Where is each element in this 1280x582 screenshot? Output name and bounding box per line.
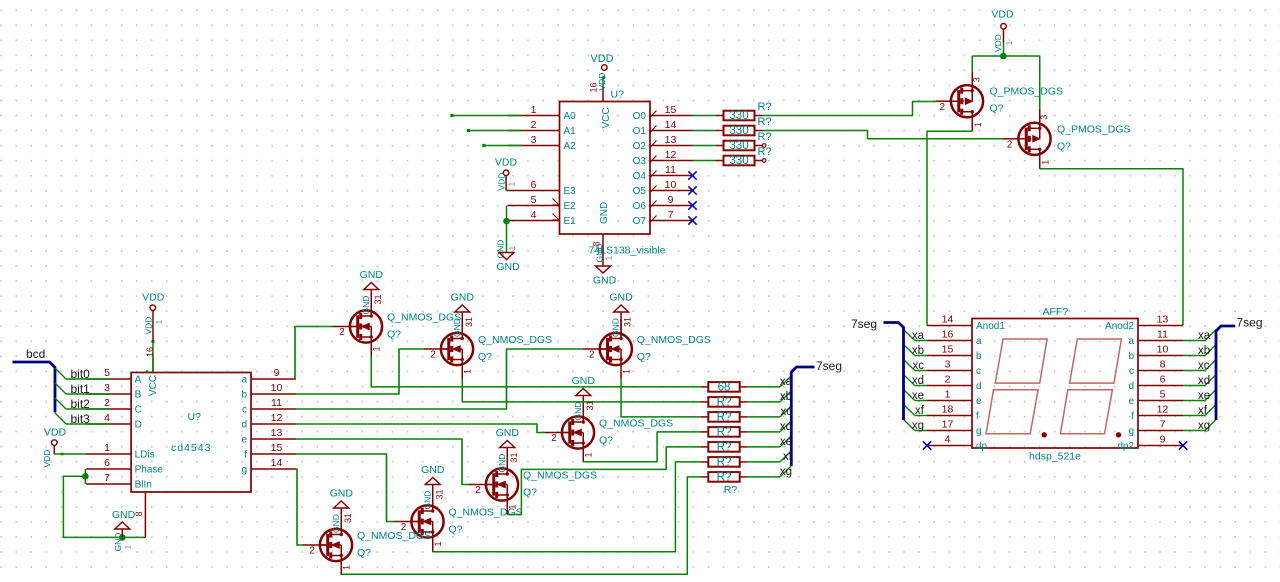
svg-text:R?: R? bbox=[717, 412, 732, 424]
svg-text:VDD: VDD bbox=[144, 317, 154, 335]
svg-text:g: g bbox=[976, 426, 982, 437]
svg-text:A2: A2 bbox=[564, 141, 577, 152]
svg-text:E3: E3 bbox=[564, 186, 577, 197]
svg-text:Q?: Q? bbox=[449, 524, 463, 536]
svg-text:5: 5 bbox=[104, 367, 110, 379]
svg-text:O0: O0 bbox=[633, 111, 647, 122]
svg-text:1: 1 bbox=[463, 369, 473, 374]
svg-text:c: c bbox=[1129, 366, 1134, 377]
svg-text:VCC: VCC bbox=[148, 375, 159, 396]
svg-text:R?: R? bbox=[724, 484, 738, 496]
svg-text:bit3: bit3 bbox=[71, 412, 91, 426]
svg-text:d: d bbox=[1128, 381, 1134, 392]
svg-text:xb: xb bbox=[1198, 345, 1210, 357]
svg-text:xg: xg bbox=[912, 420, 924, 432]
svg-text:10: 10 bbox=[665, 179, 677, 191]
svg-text:Q?: Q? bbox=[387, 329, 401, 341]
svg-text:R?: R? bbox=[758, 146, 772, 158]
svg-text:O2: O2 bbox=[633, 141, 647, 152]
svg-text:2: 2 bbox=[339, 327, 345, 338]
svg-text:GND: GND bbox=[451, 292, 475, 304]
svg-text:11: 11 bbox=[665, 164, 676, 176]
svg-text:O4: O4 bbox=[633, 171, 647, 182]
svg-text:GND: GND bbox=[422, 491, 432, 510]
svg-text:bit0: bit0 bbox=[71, 367, 91, 381]
svg-text:a: a bbox=[976, 336, 982, 347]
svg-text:g: g bbox=[241, 465, 247, 476]
svg-text:D: D bbox=[135, 420, 142, 431]
svg-text:9: 9 bbox=[668, 194, 674, 206]
svg-text:Q?: Q? bbox=[599, 435, 613, 447]
svg-text:VCC: VCC bbox=[601, 107, 612, 128]
svg-text:Anod2: Anod2 bbox=[1105, 321, 1134, 332]
svg-text:R?: R? bbox=[758, 131, 772, 143]
svg-text:cd4543: cd4543 bbox=[171, 442, 211, 454]
svg-text:GND: GND bbox=[599, 202, 610, 224]
svg-text:A: A bbox=[135, 375, 142, 386]
svg-text:12: 12 bbox=[1157, 404, 1169, 416]
svg-text:xb: xb bbox=[912, 345, 924, 357]
svg-text:3: 3 bbox=[531, 134, 537, 146]
svg-text:7: 7 bbox=[104, 472, 110, 484]
svg-text:d: d bbox=[241, 420, 247, 431]
svg-text:Q_NMOS_DGS: Q_NMOS_DGS bbox=[387, 312, 461, 324]
svg-text:E2: E2 bbox=[564, 201, 577, 212]
svg-text:7seg: 7seg bbox=[816, 359, 842, 373]
svg-text:9: 9 bbox=[274, 367, 280, 379]
svg-text:1: 1 bbox=[945, 389, 951, 401]
svg-text:10: 10 bbox=[1157, 344, 1169, 356]
svg-text:GND: GND bbox=[330, 488, 354, 500]
svg-text:GND: GND bbox=[573, 402, 583, 421]
svg-text:Anod1: Anod1 bbox=[976, 321, 1005, 332]
svg-text:2: 2 bbox=[551, 433, 557, 444]
svg-text:Q?: Q? bbox=[478, 351, 492, 363]
svg-text:13: 13 bbox=[271, 427, 283, 439]
svg-text:1: 1 bbox=[507, 182, 517, 187]
svg-text:1: 1 bbox=[123, 545, 133, 550]
svg-text:Q?: Q? bbox=[990, 103, 1004, 115]
svg-text:dp2: dp2 bbox=[1117, 441, 1134, 452]
svg-text:LDis: LDis bbox=[135, 450, 155, 461]
svg-text:3: 3 bbox=[945, 359, 951, 371]
svg-text:Q_NMOS_DGS: Q_NMOS_DGS bbox=[449, 507, 523, 519]
svg-text:5: 5 bbox=[531, 194, 537, 206]
svg-text:1: 1 bbox=[621, 369, 631, 374]
svg-text:1: 1 bbox=[1004, 41, 1014, 46]
svg-text:GND: GND bbox=[421, 464, 445, 476]
svg-text:e: e bbox=[1128, 396, 1134, 407]
svg-text:31: 31 bbox=[509, 452, 519, 462]
svg-text:R?: R? bbox=[717, 457, 732, 469]
svg-text:g: g bbox=[1128, 426, 1134, 437]
svg-text:Q_NMOS_DGS: Q_NMOS_DGS bbox=[478, 334, 552, 346]
svg-text:b: b bbox=[1128, 351, 1134, 362]
svg-text:17: 17 bbox=[942, 419, 954, 431]
svg-text:2: 2 bbox=[940, 102, 946, 113]
svg-text:GND: GND bbox=[497, 454, 507, 473]
svg-text:330: 330 bbox=[729, 125, 748, 137]
svg-text:GND: GND bbox=[609, 292, 633, 304]
svg-text:Q_NMOS_DGS: Q_NMOS_DGS bbox=[637, 334, 711, 346]
svg-text:Q_PMOS_DGS: Q_PMOS_DGS bbox=[990, 86, 1064, 98]
svg-text:12: 12 bbox=[665, 149, 677, 161]
svg-text:15: 15 bbox=[665, 104, 677, 116]
svg-text:3: 3 bbox=[1039, 115, 1049, 120]
svg-text:U?: U? bbox=[611, 89, 625, 101]
svg-text:12: 12 bbox=[271, 412, 283, 424]
svg-text:R?: R? bbox=[717, 442, 732, 454]
svg-text:2: 2 bbox=[945, 374, 951, 386]
svg-text:VDD: VDD bbox=[497, 173, 507, 191]
svg-text:16: 16 bbox=[589, 82, 599, 92]
svg-text:31: 31 bbox=[434, 489, 444, 499]
svg-text:18: 18 bbox=[942, 404, 954, 416]
svg-text:xc: xc bbox=[913, 360, 925, 372]
svg-text:c: c bbox=[976, 366, 981, 377]
svg-text:R?: R? bbox=[758, 101, 772, 113]
svg-text:16: 16 bbox=[942, 329, 954, 341]
svg-text:11: 11 bbox=[271, 397, 282, 409]
svg-text:e: e bbox=[976, 396, 982, 407]
svg-text:GND: GND bbox=[360, 269, 384, 281]
svg-text:1: 1 bbox=[433, 541, 443, 546]
svg-text:R?: R? bbox=[717, 472, 732, 484]
svg-text:dp: dp bbox=[976, 441, 988, 452]
svg-text:a: a bbox=[1128, 336, 1134, 347]
svg-text:7seg: 7seg bbox=[1237, 316, 1263, 330]
svg-text:1: 1 bbox=[104, 442, 110, 454]
svg-text:O3: O3 bbox=[633, 156, 647, 167]
svg-text:bcd: bcd bbox=[26, 347, 45, 361]
svg-text:1: 1 bbox=[342, 565, 352, 570]
svg-text:68: 68 bbox=[718, 382, 731, 394]
svg-text:15: 15 bbox=[942, 344, 954, 356]
svg-text:GND: GND bbox=[331, 514, 341, 533]
svg-text:VDD: VDD bbox=[991, 9, 1014, 21]
svg-text:VDD: VDD bbox=[44, 427, 67, 439]
svg-text:4: 4 bbox=[945, 434, 951, 446]
svg-text:hdsp_521e: hdsp_521e bbox=[1029, 451, 1081, 463]
svg-text:xd: xd bbox=[1198, 375, 1210, 387]
svg-text:f: f bbox=[976, 411, 979, 422]
svg-text:15: 15 bbox=[271, 442, 283, 454]
svg-text:14: 14 bbox=[942, 314, 954, 326]
svg-text:1: 1 bbox=[973, 122, 983, 127]
svg-text:xc: xc bbox=[1198, 360, 1210, 372]
svg-text:1: 1 bbox=[531, 104, 537, 116]
svg-text:Q?: Q? bbox=[1057, 140, 1071, 152]
svg-text:1: 1 bbox=[584, 452, 594, 457]
svg-text:xe: xe bbox=[1198, 390, 1210, 402]
svg-text:GND: GND bbox=[611, 318, 621, 337]
svg-text:b: b bbox=[976, 351, 982, 362]
svg-text:2: 2 bbox=[589, 350, 595, 361]
svg-text:R?: R? bbox=[758, 116, 772, 128]
svg-text:xf: xf bbox=[915, 405, 925, 417]
svg-text:7: 7 bbox=[668, 209, 674, 221]
svg-text:xg: xg bbox=[780, 466, 792, 478]
svg-text:bit1: bit1 bbox=[71, 382, 91, 396]
svg-text:GND: GND bbox=[496, 427, 520, 439]
svg-text:4: 4 bbox=[104, 412, 110, 424]
svg-text:GND: GND bbox=[496, 240, 506, 259]
svg-text:O1: O1 bbox=[633, 126, 647, 137]
svg-text:d: d bbox=[976, 381, 982, 392]
svg-text:2: 2 bbox=[531, 119, 537, 131]
svg-text:1: 1 bbox=[507, 246, 517, 251]
svg-text:R?: R? bbox=[717, 427, 732, 439]
svg-text:1: 1 bbox=[604, 256, 614, 261]
svg-text:b: b bbox=[241, 390, 247, 401]
svg-text:9: 9 bbox=[1160, 434, 1166, 446]
svg-text:GND: GND bbox=[113, 533, 123, 552]
svg-text:6: 6 bbox=[104, 457, 110, 469]
svg-text:A1: A1 bbox=[564, 126, 577, 137]
svg-text:a: a bbox=[241, 375, 247, 386]
svg-text:GND: GND bbox=[496, 261, 520, 273]
svg-text:VDD: VDD bbox=[597, 73, 607, 91]
svg-text:O7: O7 bbox=[633, 216, 647, 227]
svg-text:6: 6 bbox=[1160, 374, 1166, 386]
svg-text:7: 7 bbox=[1160, 419, 1166, 431]
svg-text:xa: xa bbox=[1198, 330, 1211, 342]
svg-text:VDD: VDD bbox=[142, 292, 165, 304]
svg-text:14: 14 bbox=[665, 119, 677, 131]
svg-text:2: 2 bbox=[1007, 140, 1013, 151]
svg-text:xg: xg bbox=[1198, 420, 1210, 432]
svg-text:13: 13 bbox=[1157, 314, 1169, 326]
svg-text:GND: GND bbox=[572, 375, 596, 387]
svg-text:A0: A0 bbox=[564, 111, 577, 122]
svg-text:C: C bbox=[135, 405, 142, 416]
svg-text:xf: xf bbox=[1198, 405, 1208, 417]
svg-text:VDD: VDD bbox=[590, 53, 613, 65]
svg-text:Q?: Q? bbox=[357, 547, 371, 559]
svg-text:O5: O5 bbox=[633, 186, 647, 197]
svg-text:14: 14 bbox=[271, 457, 283, 469]
svg-text:O6: O6 bbox=[633, 201, 647, 212]
svg-text:7seg: 7seg bbox=[851, 317, 877, 331]
svg-text:330: 330 bbox=[729, 140, 748, 152]
svg-text:AFF?: AFF? bbox=[1043, 306, 1069, 318]
svg-text:xa: xa bbox=[912, 330, 925, 342]
svg-text:Phase: Phase bbox=[135, 465, 164, 476]
svg-text:VDD: VDD bbox=[495, 157, 518, 169]
svg-text:c: c bbox=[242, 405, 247, 416]
svg-text:R?: R? bbox=[717, 397, 732, 409]
svg-text:31: 31 bbox=[343, 513, 353, 523]
svg-text:Q_NMOS_DGS: Q_NMOS_DGS bbox=[599, 418, 673, 430]
svg-text:8: 8 bbox=[1160, 359, 1166, 371]
svg-text:16: 16 bbox=[145, 347, 155, 357]
svg-text:Q_PMOS_DGS: Q_PMOS_DGS bbox=[1057, 123, 1131, 135]
svg-text:4: 4 bbox=[531, 209, 537, 221]
svg-text:3: 3 bbox=[972, 77, 982, 82]
svg-text:10: 10 bbox=[271, 382, 283, 394]
svg-text:330: 330 bbox=[729, 110, 748, 122]
svg-text:2: 2 bbox=[104, 397, 110, 409]
svg-text:Q_NMOS_DGS: Q_NMOS_DGS bbox=[523, 470, 597, 482]
svg-text:2: 2 bbox=[475, 485, 481, 496]
svg-text:3: 3 bbox=[104, 382, 110, 394]
svg-text:31: 31 bbox=[623, 317, 633, 327]
svg-text:GND: GND bbox=[112, 509, 136, 521]
svg-text:e: e bbox=[241, 435, 247, 446]
svg-text:VDD: VDD bbox=[42, 450, 52, 468]
svg-text:2: 2 bbox=[430, 350, 436, 361]
svg-text:8: 8 bbox=[134, 511, 144, 516]
svg-text:GND: GND bbox=[452, 318, 462, 337]
svg-text:13: 13 bbox=[665, 134, 677, 146]
svg-text:11: 11 bbox=[1157, 329, 1168, 341]
svg-text:xe: xe bbox=[912, 390, 924, 402]
svg-text:Q?: Q? bbox=[637, 351, 651, 363]
svg-text:6: 6 bbox=[531, 179, 537, 191]
svg-text:GND: GND bbox=[361, 296, 371, 315]
svg-text:xd: xd bbox=[912, 375, 924, 387]
svg-text:B: B bbox=[135, 390, 142, 401]
svg-text:5: 5 bbox=[1160, 389, 1166, 401]
svg-text:31: 31 bbox=[464, 317, 474, 327]
svg-text:Q_NMOS_DGS: Q_NMOS_DGS bbox=[357, 530, 431, 542]
svg-text:f: f bbox=[244, 450, 247, 461]
svg-text:bit2: bit2 bbox=[71, 397, 91, 411]
svg-text:f: f bbox=[1131, 411, 1134, 422]
svg-text:1: 1 bbox=[1041, 160, 1051, 165]
svg-text:VDD: VDD bbox=[993, 34, 1003, 52]
svg-text:1: 1 bbox=[154, 320, 164, 325]
svg-text:U?: U? bbox=[188, 411, 202, 423]
svg-text:31: 31 bbox=[373, 294, 383, 304]
svg-text:1: 1 bbox=[372, 346, 382, 351]
svg-text:BlIn: BlIn bbox=[135, 480, 152, 491]
svg-text:Q?: Q? bbox=[523, 487, 537, 499]
svg-text:GND: GND bbox=[593, 275, 617, 287]
svg-text:330: 330 bbox=[729, 155, 748, 167]
svg-text:2: 2 bbox=[309, 546, 315, 557]
svg-text:E1: E1 bbox=[564, 216, 577, 227]
